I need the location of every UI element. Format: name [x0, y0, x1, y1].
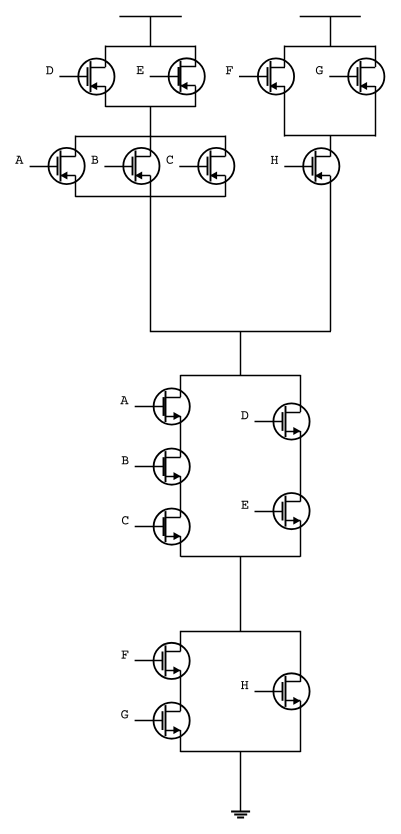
wire: A drain stub (NMOS)	[180, 375, 182, 397]
wire: NMOS stack junction	[240, 556, 242, 631]
ground	[231, 812, 250, 818]
transistor B2	[135, 449, 190, 485]
gate label C	[122, 516, 129, 524]
wire: F-G link (NMOS)	[180, 670, 182, 711]
gate label E	[137, 66, 144, 74]
gate label F	[226, 66, 233, 74]
wire: bottom NMOS loop top edge	[181, 631, 301, 633]
wire: D drain stub (NMOS)	[300, 375, 302, 412]
wire: F source stub	[284, 86, 286, 137]
transistor E2	[255, 493, 310, 529]
wire: G source stub	[375, 86, 377, 137]
gate label G	[316, 66, 323, 74]
wire: D drain stub	[105, 46, 107, 68]
transistor G2	[135, 703, 190, 739]
wire: middle NMOS loop top edge	[181, 375, 301, 377]
transistor D2	[255, 403, 310, 439]
wire: F,G parallel loop bottom edge	[284, 135, 375, 137]
wire: D,E parallel loop top edge	[105, 46, 195, 48]
wire: bottom NMOS loop bottom edge	[181, 751, 301, 753]
wire: H source stub (NMOS)	[300, 701, 302, 752]
gate label G	[121, 710, 128, 718]
wire: E source stub (NMOS)	[300, 521, 302, 557]
wire: G source stub (NMOS)	[180, 730, 182, 752]
wire: node between PMOS groups (left)	[150, 106, 152, 136]
wire: F,G parallel loop top edge	[284, 46, 375, 48]
gate label E	[241, 501, 248, 509]
transistor H2	[255, 673, 310, 709]
gate label A	[15, 156, 23, 164]
wire: B drain stub	[150, 136, 152, 157]
transistor A2	[135, 388, 190, 424]
transistor F2	[135, 643, 190, 679]
wire: A drain stub	[75, 136, 77, 157]
wire: B-C link (NMOS)	[180, 476, 182, 517]
wire: H source to output node	[330, 176, 332, 331]
wire: C source stub	[225, 176, 227, 197]
wire: C drain stub	[225, 136, 227, 157]
wire: F drain stub	[284, 46, 286, 68]
wire: D,E parallel loop bottom edge	[105, 106, 195, 108]
wire: middle NMOS loop bottom edge	[181, 556, 301, 558]
wire: G drain stub	[375, 46, 377, 68]
gate label D	[46, 66, 53, 74]
wire: F drain stub (NMOS)	[180, 631, 182, 652]
gate label F	[121, 651, 128, 659]
wire: A,B,C parallel loop bottom edge	[75, 196, 225, 198]
transistor C	[179, 148, 234, 184]
wire: output node to NMOS stack	[240, 331, 242, 376]
gate label B	[91, 156, 98, 164]
wire: pull-up output node horizontal	[150, 331, 331, 333]
wire: H drain stub (NMOS)	[300, 631, 302, 682]
VDD rail (right)	[300, 16, 361, 46]
wire: E source stub	[195, 86, 197, 107]
wire: A-B link (NMOS)	[180, 416, 182, 457]
transistor E	[150, 58, 205, 94]
transistor C2	[135, 508, 190, 544]
gate label H	[241, 681, 248, 689]
wire: B source stub	[150, 176, 152, 197]
VDD rail (left)	[119, 16, 181, 46]
wire: A source stub	[75, 176, 77, 197]
wire: D-E link (NMOS)	[300, 431, 302, 502]
transistor B	[104, 148, 159, 184]
wire: F,G output to H drain	[330, 136, 332, 157]
gate label D	[241, 411, 248, 419]
transistor G	[329, 58, 384, 94]
wire: D source stub	[105, 86, 107, 107]
wire: E drain stub	[195, 46, 197, 68]
gate label C	[167, 156, 174, 164]
wire: A,B,C parallel loop top edge	[75, 136, 225, 138]
transistor F	[239, 58, 294, 94]
wire: C source stub (NMOS)	[180, 536, 182, 557]
gate label H	[271, 156, 278, 164]
gate label A	[120, 396, 128, 404]
transistor H	[284, 148, 339, 184]
transistor D	[59, 59, 114, 95]
wire: source rail to ground	[240, 751, 242, 811]
wire: A,B,C group output to output node	[150, 196, 152, 331]
transistor A	[30, 148, 85, 184]
gate label B	[122, 456, 129, 464]
